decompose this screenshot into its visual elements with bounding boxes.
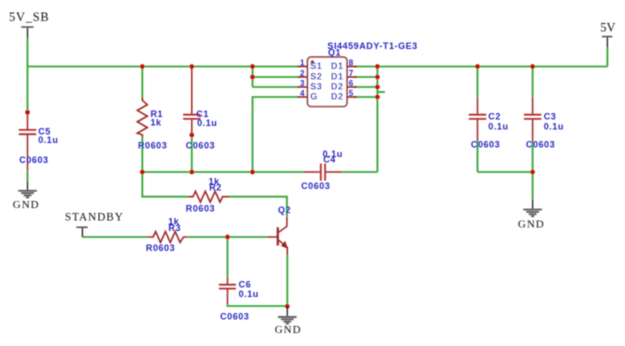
svg-text:C0603: C0603 (186, 140, 215, 150)
wire drain column (376, 67, 378, 173)
svg-text:S1: S1 (310, 61, 322, 71)
wire C6 bottom L (228, 304, 288, 306)
svg-text:5V_SB: 5V_SB (9, 10, 50, 24)
capacitor C3 (524, 97, 541, 142)
svg-text:R2: R2 (209, 183, 222, 193)
power flag 5V_SB (9, 10, 50, 38)
resistor R2 (188, 191, 230, 202)
svg-text:0.1u: 0.1u (544, 121, 564, 131)
wire 5V drop (606, 48, 608, 67)
pin 1 marker dot (311, 60, 314, 63)
svg-text:GND: GND (275, 324, 302, 336)
svg-text:S3: S3 (310, 82, 322, 92)
wire right gnd drop (532, 172, 534, 199)
svg-text:GND: GND (518, 219, 545, 231)
wire pin6 link (354, 86, 378, 88)
svg-text:5V: 5V (600, 20, 615, 34)
wire R2 to collector (230, 197, 287, 217)
svg-text:D2: D2 (331, 92, 344, 102)
wire pin5 link (354, 96, 378, 98)
svg-text:0.1u: 0.1u (38, 135, 58, 145)
svg-text:G: G (310, 92, 318, 102)
wire C2-C3 bottom link (478, 171, 533, 173)
wire C1 bottom (191, 135, 193, 172)
svg-text:D1: D1 (331, 61, 344, 71)
pin stubs right (347, 67, 357, 98)
capacitor C6 (219, 277, 236, 305)
svg-text:7: 7 (349, 69, 354, 78)
op-amp U1 box: mosfet IC Q1 (308, 57, 348, 106)
wire emitter down (286, 256, 288, 307)
svg-text:C0603: C0603 (220, 312, 249, 322)
wire bus to R2 (142, 172, 188, 197)
svg-text:C0603: C0603 (301, 181, 330, 191)
transistor Q2 (267, 217, 288, 256)
capacitor C5 (19, 112, 36, 171)
wire R1 bottom (141, 135, 143, 172)
wire 5V_SB vertical (27, 38, 29, 112)
svg-text:C4: C4 (323, 155, 336, 165)
power flag 5V (600, 20, 615, 47)
svg-text:2: 2 (300, 69, 305, 78)
svg-text:R3: R3 (168, 223, 181, 233)
capacitor C2 (469, 97, 486, 142)
ground left (13, 182, 40, 212)
pin names (310, 61, 343, 102)
svg-text:4: 4 (300, 89, 305, 98)
wire pin8 link (354, 66, 378, 68)
svg-text:1k: 1k (151, 118, 163, 128)
wire pin7 link (354, 76, 378, 78)
capacitor C1 (183, 67, 200, 135)
wire C3 top (532, 67, 534, 98)
svg-text:C0603: C0603 (19, 155, 48, 165)
capacitor C4 (304, 164, 343, 181)
wire R1 top (141, 67, 143, 100)
wire 5V_SB rail (28, 66, 300, 68)
svg-text:D2: D2 (331, 82, 344, 92)
wire C2 bottom (477, 142, 479, 172)
svg-text:R0603: R0603 (138, 140, 167, 150)
svg-text:S2: S2 (310, 72, 322, 82)
svg-text:R0603: R0603 (186, 204, 215, 214)
ground right (518, 199, 545, 230)
wire C4 right to drain (342, 171, 377, 173)
svg-text:0.1u: 0.1u (488, 121, 508, 131)
wire S2-S3 branch vertical (252, 67, 254, 88)
wire C5 bottom (27, 171, 29, 182)
svg-text:STANDBY: STANDBY (65, 212, 124, 224)
ground middle (275, 306, 302, 335)
svg-text:GND: GND (13, 199, 40, 211)
svg-text:D1: D1 (331, 72, 344, 82)
wire 5V rail (377, 66, 607, 68)
svg-text:C0603: C0603 (471, 140, 500, 150)
pin numbers (300, 58, 305, 98)
wire gate bus (142, 171, 303, 173)
wire R3 to base (188, 236, 267, 238)
svg-text:R0603: R0603 (146, 243, 175, 253)
pin stubs left (298, 67, 308, 98)
svg-text:6: 6 (349, 79, 354, 88)
svg-text:C3: C3 (544, 112, 557, 122)
svg-text:C2: C2 (488, 112, 501, 122)
wire pin2 (253, 76, 300, 78)
svg-text:0.1u: 0.1u (197, 118, 217, 128)
svg-text:C0603: C0603 (526, 140, 555, 150)
svg-text:8: 8 (349, 58, 354, 67)
svg-text:1: 1 (300, 58, 305, 67)
wire C3 bottom (532, 142, 534, 172)
wire standby to R3 (82, 236, 147, 238)
wire gate pin4 (253, 97, 300, 172)
wire C2 top (477, 67, 479, 98)
power flag STANDBY (65, 212, 124, 238)
svg-text:0.1u: 0.1u (239, 289, 259, 299)
wire pin3 (253, 86, 300, 88)
svg-text:Q2: Q2 (278, 205, 291, 215)
resistor R3 (148, 232, 188, 243)
wire C6 top (227, 237, 229, 277)
svg-text:3: 3 (300, 79, 305, 88)
resistor R1 (137, 98, 147, 138)
wire short stub (377, 91, 384, 93)
svg-text:5: 5 (349, 89, 354, 98)
svg-text:Q1: Q1 (328, 48, 341, 58)
